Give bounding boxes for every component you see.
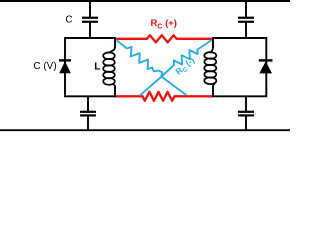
svg-text:RC (+): RC (+) — [151, 18, 177, 31]
svg-text:C (V): C (V) — [33, 61, 56, 72]
svg-text:L: L — [94, 60, 101, 72]
svg-text:C: C — [65, 15, 72, 26]
